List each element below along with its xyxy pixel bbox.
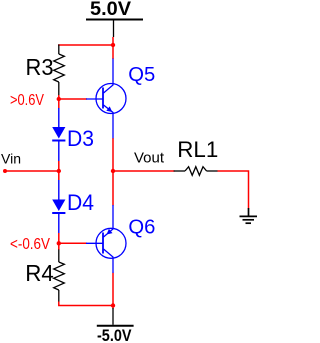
wire Vin to diode column <box>5 170 59 172</box>
wire Vout node to RL1 <box>113 170 175 172</box>
svg-text:RL1: RL1 <box>177 137 218 162</box>
junction at R3 / D3 / Q5 base node <box>57 97 61 101</box>
svg-text:Q5: Q5 <box>128 63 155 86</box>
svg-text:Q6: Q6 <box>128 215 155 238</box>
wire from node >0.6V to Q5 base <box>59 98 87 100</box>
wire node <-0.6V to R4 <box>58 243 60 250</box>
wire D3 cathode to Vin node <box>58 161 60 171</box>
svg-text:D3: D3 <box>67 126 94 151</box>
junction at Vout node <box>111 169 115 173</box>
resistor RL1 <box>174 167 218 176</box>
wire R4 to bottom rail corner <box>59 302 113 306</box>
wire top rail from R3 to Q5 collector column <box>58 44 113 46</box>
svg-text:5.0V: 5.0V <box>90 0 131 20</box>
svg-text:-5.0V: -5.0V <box>97 327 132 343</box>
svg-text:R3: R3 <box>26 54 54 80</box>
wire node <-0.6V to Q6 base <box>59 242 87 244</box>
wire +5V rail to Q5 collector <box>112 45 114 59</box>
svg-text:D4: D4 <box>67 190 94 215</box>
junction at Vin / D3 / D4 node <box>57 169 61 173</box>
wire Vout node down to Q6 emitter <box>112 171 114 206</box>
power +5V supply symbol <box>86 20 143 38</box>
wire D4 cathode to node <-0.6V <box>58 233 60 243</box>
wire R3 to node >0.6V <box>58 95 60 99</box>
wire Q5 emitter down to Vout node <box>112 138 114 171</box>
junction at bottom rail and -5V pin <box>111 303 115 307</box>
transistor Q5 (NPN) <box>86 59 126 139</box>
resistor R4 <box>54 250 65 303</box>
svg-text:>0.6V: >0.6V <box>10 92 44 109</box>
svg-text:Vout: Vout <box>134 151 164 167</box>
wire RL1 to ground corner <box>218 171 249 209</box>
wire Vin node to diode D4 anode <box>58 171 60 180</box>
junction at D4 / R4 / Q6 base node <box>57 241 61 245</box>
diode D3 <box>52 108 65 161</box>
resistor R3 <box>54 44 65 95</box>
wire Q6 collector down to -5V rail <box>112 273 114 306</box>
svg-text:<-0.6V: <-0.6V <box>10 236 50 253</box>
wire +5V pin to top rail <box>112 37 114 45</box>
input terminal dot <box>3 169 7 173</box>
ground symbol <box>240 208 258 223</box>
svg-text:R4: R4 <box>25 260 54 286</box>
wire node >0.6V to diode D3 anode <box>58 99 60 109</box>
transistor Q6 (PNP) <box>86 205 126 273</box>
wire -5V rail stub to pin <box>112 306 114 309</box>
svg-text:Vin: Vin <box>1 151 21 167</box>
power -5V supply symbol <box>97 308 134 326</box>
diode D4 <box>52 180 65 233</box>
junction at top rail and +5V pin <box>111 43 115 47</box>
